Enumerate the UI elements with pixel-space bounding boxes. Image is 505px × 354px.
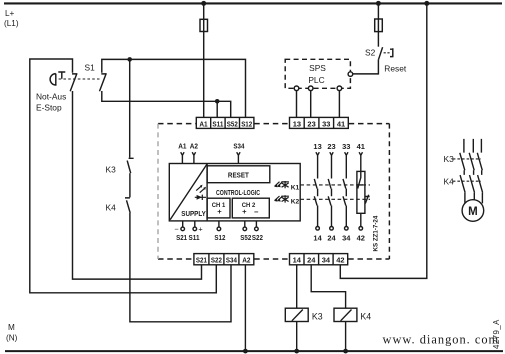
mechanical link dashes S1 [59, 78, 100, 80]
pin S34 [233, 142, 244, 164]
svg-text:S12: S12 [214, 233, 225, 242]
svg-text:23: 23 [327, 142, 335, 151]
fuse F1 [200, 19, 208, 31]
svg-text:41: 41 [337, 119, 345, 128]
pin S12 [214, 221, 225, 242]
pin 14 [313, 206, 321, 243]
svg-text:K2: K2 [291, 198, 300, 205]
node junction A2 / M rail [243, 349, 248, 354]
pin S22 [252, 221, 263, 242]
node junction L+ / S2 branch [376, 1, 381, 6]
svg-text:13: 13 [293, 119, 301, 128]
pushbutton actuator S2 [384, 48, 393, 57]
wire L+ to fuse F2 to S2 [377, 3, 379, 46]
pin S52 [240, 221, 251, 242]
mechanical link K2 to contacts [300, 198, 370, 200]
svg-text:CONTROL-LOGIC: CONTROL-LOGIC [216, 188, 260, 197]
svg-text:S2: S2 [365, 47, 376, 57]
contact K3 auxiliary (NC) [127, 158, 133, 173]
svg-text:S22: S22 [211, 256, 222, 265]
wire fuse F1 branch L+ to terminal A1 [203, 3, 205, 117]
svg-text:42: 42 [336, 256, 344, 265]
wire S1 pole2 bottom to terminals S11 and S52 [102, 91, 231, 118]
pin A2 [190, 142, 198, 164]
svg-text:42: 42 [357, 234, 365, 243]
wire feedback branch upper [129, 59, 131, 157]
svg-text:S22: S22 [252, 233, 263, 242]
svg-text:(L1): (L1) [4, 19, 19, 28]
node junction S11 [215, 99, 220, 104]
emergency stop mushroom head [50, 72, 65, 85]
PLC node output 13 [294, 86, 299, 91]
svg-text:33: 33 [342, 142, 350, 151]
wire PLC to terminal 23 [310, 91, 312, 118]
safety relay boundary left (dashed) [157, 124, 159, 259]
fuse F2 [375, 19, 383, 32]
svg-text:A2: A2 [190, 142, 198, 151]
svg-text:K3: K3 [444, 154, 455, 164]
pin 42 [357, 213, 365, 242]
wire S1 pole1 top via left loop to terminal S22 [30, 59, 217, 293]
svg-text:A1: A1 [199, 119, 207, 128]
safety relay boundary bottom (dashed) [158, 258, 389, 260]
channel 2 box [232, 198, 269, 218]
node junction K3 / M rail [294, 349, 299, 354]
relay K2 coil symbol [274, 195, 289, 202]
contact K1/K2 output path 33-34 [343, 179, 346, 206]
svg-text:K4: K4 [106, 203, 117, 213]
svg-text:23: 23 [307, 119, 315, 128]
wire PLC to terminal 13 [296, 91, 298, 118]
reset function box [207, 166, 270, 183]
contact K1/K2 output path 13-14 [314, 179, 317, 206]
motor M [462, 200, 484, 222]
contactor coil K3 [285, 308, 308, 321]
svg-text:K4: K4 [444, 176, 455, 186]
safety relay boundary top (dashed) [158, 123, 389, 125]
contact K1/K2 output path 23-24 [328, 179, 331, 206]
pin 24 [327, 206, 335, 243]
wire S1 pole1 bottom to terminal S21 [73, 91, 202, 279]
pin 23 [327, 142, 335, 179]
contactor K4 main contacts (3-phase) [453, 170, 483, 192]
pin S21 with minus [174, 221, 187, 242]
svg-text:A2: A2 [242, 256, 250, 265]
svg-text:A1: A1 [178, 142, 186, 151]
pin 33 [342, 142, 350, 179]
svg-text:M: M [8, 323, 15, 332]
svg-text:K3: K3 [106, 165, 117, 175]
svg-text:L+: L+ [5, 9, 15, 18]
svg-text:K4: K4 [360, 311, 371, 321]
svg-text:+: + [242, 207, 247, 216]
terminal block top-right 13 23 33 41 [290, 117, 349, 128]
wire terminal 14 to contactor coil K3 [296, 265, 298, 308]
wire between K3 and K4 aux contacts [129, 173, 131, 197]
terminal block bottom-right 14 24 34 42 [290, 254, 348, 265]
pin A1 [178, 142, 186, 164]
supply section divider [206, 164, 208, 221]
svg-text:13: 13 [313, 142, 321, 151]
channel 1 box [207, 198, 230, 218]
svg-text:K3: K3 [312, 311, 323, 321]
svg-text:+: + [217, 207, 222, 216]
pin 41 [357, 142, 365, 171]
svg-text:Not-Aus: Not-Aus [36, 92, 66, 102]
wire terminal 42 return loop to L+ [340, 3, 427, 278]
wire K3 coil to M rail [296, 322, 298, 352]
svg-text:S11: S11 [212, 119, 223, 128]
wire M return rail [5, 350, 503, 352]
supply diagonal [170, 164, 207, 220]
svg-text:Reset: Reset [384, 64, 407, 74]
wire S11 stub [216, 101, 218, 118]
wire L+ supply rail [4, 2, 502, 4]
svg-text:S52: S52 [240, 233, 251, 242]
relay K1 coil symbol [274, 181, 289, 188]
node junction K3/K4 feedback branch [127, 57, 132, 62]
contactor coil K4 [334, 308, 357, 321]
forcibly guided contact frame 41-42 [357, 171, 365, 213]
svg-text:RESET: RESET [228, 171, 250, 180]
svg-text:K1: K1 [291, 184, 300, 191]
svg-text:S1: S1 [85, 63, 96, 73]
wire A2 to M rail [244, 265, 246, 351]
wire K4 coil to M rail [345, 322, 347, 352]
svg-text:SPS: SPS [309, 63, 326, 73]
terminal block top-left A1 S11 S52 S12 [196, 117, 254, 128]
svg-text:24: 24 [327, 234, 335, 243]
switch S1 pole 2 (NC, e-stop channel 1) [100, 74, 107, 91]
svg-text:14: 14 [293, 256, 301, 265]
svg-text:PLC: PLC [308, 75, 324, 85]
safety relay module box U1 [169, 164, 300, 221]
switch S1 pole 1 (NC, e-stop channel 2) [70, 74, 77, 91]
svg-text:14: 14 [313, 234, 321, 243]
svg-text:−: − [254, 208, 259, 217]
svg-text:M: M [468, 206, 478, 218]
wire S1 pole2 top to terminal S12 [102, 59, 246, 117]
svg-text:34: 34 [322, 256, 330, 265]
svg-text:S34: S34 [233, 142, 244, 151]
terminal block bottom-left S21 S22 S34 A2 [194, 254, 254, 265]
svg-text:41: 41 [357, 142, 365, 151]
mechanical link K1 to contacts [300, 184, 370, 186]
svg-text:www. diangon. com: www. diangon. com [383, 333, 500, 347]
svg-text:S52: S52 [227, 119, 238, 128]
svg-text:34: 34 [342, 234, 350, 243]
svg-text:S12: S12 [241, 119, 252, 128]
wire PLC to terminal 41 [338, 91, 340, 118]
svg-text:S21: S21 [176, 233, 187, 242]
PLC box SPS/PLC [285, 59, 350, 88]
pin 34 [342, 206, 350, 243]
wire terminal 24 to contactor coil K4 [311, 265, 345, 308]
svg-text:−: − [174, 224, 178, 233]
safety relay boundary right (dashed) [388, 124, 390, 259]
svg-text:S21: S21 [196, 256, 207, 265]
svg-text:S34: S34 [226, 256, 237, 265]
PLC node input from S2 [348, 72, 353, 77]
svg-text:4279_A: 4279_A [492, 319, 501, 349]
pin 13 [313, 142, 321, 179]
svg-text:SUPPLY: SUPPLY [181, 209, 206, 218]
wire K4 aux to terminal S34 [130, 213, 231, 322]
wires contacts to motor [465, 193, 483, 204]
supply isolation / LED symbol [195, 185, 206, 200]
contact 41-42 (NC) [357, 171, 369, 203]
pin S11 with plus [189, 221, 203, 242]
svg-text:KS ZZ1-7-24: KS ZZ1-7-24 [373, 215, 380, 251]
PLC node output 23 [308, 86, 313, 91]
svg-text:33: 33 [322, 119, 330, 128]
svg-text:S11: S11 [189, 233, 200, 242]
svg-text:(N): (N) [6, 334, 18, 343]
svg-text:24: 24 [307, 256, 315, 265]
svg-text:E-Stop: E-Stop [36, 103, 62, 113]
contact K4 auxiliary (NC) [125, 198, 130, 213]
node junction L+ / 42 return [424, 1, 429, 6]
PLC node output 41 [337, 86, 342, 91]
node junction L+ / fuse F1 [201, 1, 206, 6]
node junction K4 / M rail [343, 349, 348, 354]
switch S2 reset pushbutton (NO) [378, 47, 382, 60]
wire S2 to PLC input [353, 60, 379, 74]
contactor K3 main contacts (3-phase) [453, 139, 483, 170]
